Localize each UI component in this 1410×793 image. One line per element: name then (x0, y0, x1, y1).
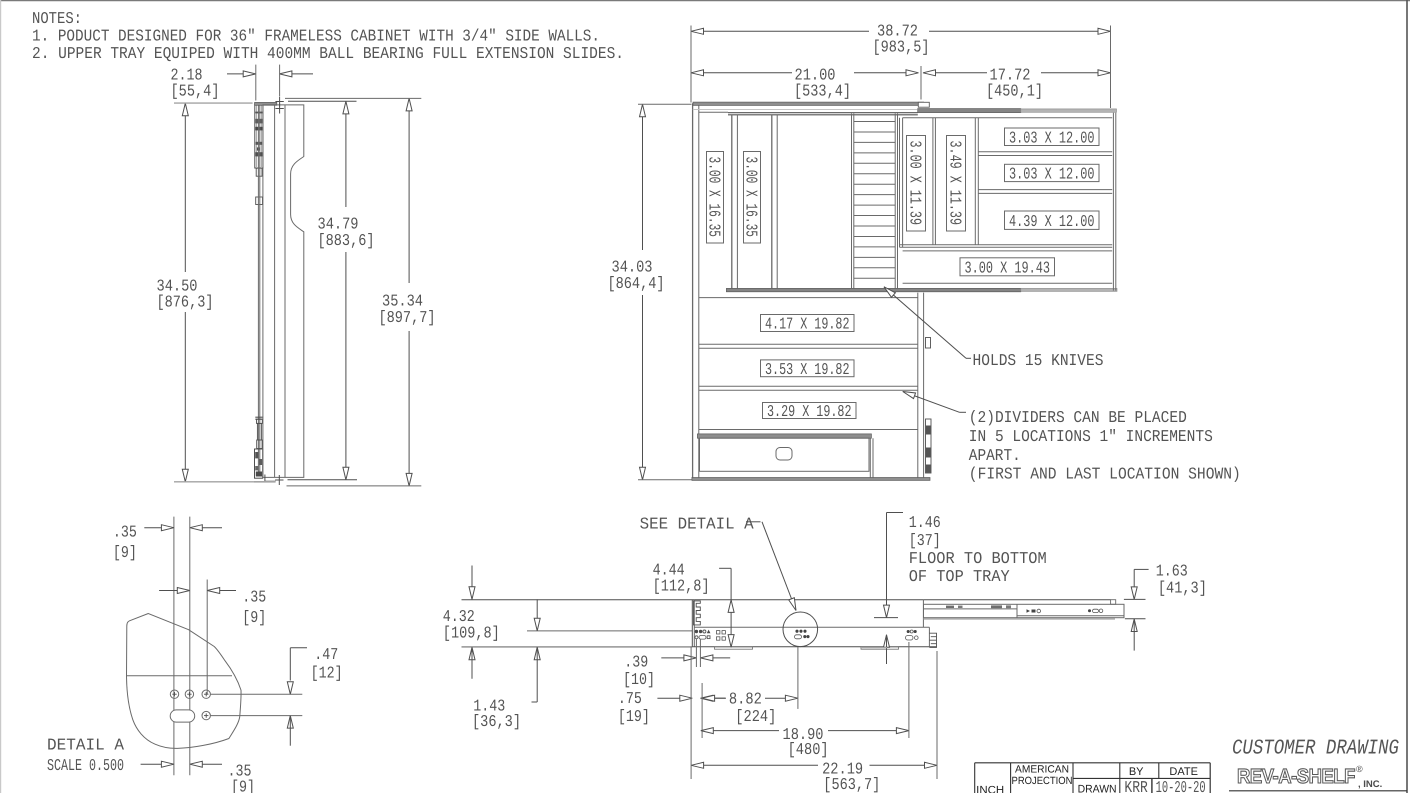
svg-text:OF TOP TRAY: OF TOP TRAY (909, 567, 1010, 586)
svg-text:[450,1]: [450,1] (986, 81, 1043, 100)
svg-text:®: ® (1356, 764, 1363, 774)
lower tray plan: divider pair 2 (771, 115, 773, 289)
section: feet under bar (715, 647, 753, 649)
svg-text:8.82: 8.82 (729, 690, 762, 709)
svg-text:DETAIL A: DETAIL A (47, 736, 124, 755)
label 3.00 X 11.39 (907, 136, 926, 232)
slide rails extended (924, 604, 1125, 617)
svg-text:, INC.: , INC. (1358, 779, 1382, 790)
svg-text:[55,4]: [55,4] (171, 82, 220, 101)
label 3.00 X 19.43 (960, 258, 1055, 276)
svg-text:REV-A-SHELF: REV-A-SHELF (1237, 765, 1355, 788)
drawer front right pair (869, 438, 871, 477)
lower tray plan: divider pair 1 (731, 115, 733, 289)
svg-text:[12]: [12] (311, 664, 343, 683)
svg-text:IN 5 LOCATIONS 1" INCREMENTS: IN 5 LOCATIONS 1" INCREMENTS (969, 427, 1213, 446)
detail A: screw holes (170, 690, 178, 698)
side view: cabinet door panel outline with handle notch (263, 105, 304, 478)
svg-text:[883,6]: [883,6] (318, 231, 375, 250)
svg-text:[480]: [480] (788, 740, 829, 759)
svg-text:[224]: [224] (735, 707, 776, 726)
lower tray plan: compartment top dark pair (728, 112, 918, 114)
leader HOLDS 15 KNIVES (884, 287, 966, 359)
label 3.00 X 16.35 compartment 1 (707, 152, 724, 244)
svg-text:[112,8]: [112,8] (653, 577, 710, 596)
svg-text:[9]: [9] (113, 543, 137, 562)
svg-text:.35: .35 (113, 523, 137, 542)
upper tray plan: interior top line (903, 117, 1113, 119)
svg-text:[109,8]: [109,8] (443, 624, 500, 643)
detail A circle rivets (795, 630, 798, 633)
section: right end cap (929, 633, 936, 647)
upper tray plan: bottom row line (903, 282, 1113, 284)
svg-text:[563,7]: [563,7] (823, 775, 880, 793)
logo underline (1229, 790, 1407, 792)
slide bottom gray (924, 618, 1116, 620)
knife block left edge (851, 114, 853, 289)
drawer front top band (697, 434, 871, 438)
extension line from detail circle (797, 647, 799, 709)
sheet left border (0, 0, 2, 793)
svg-text:1.46: 1.46 (909, 513, 941, 532)
sheet top border (0, 0, 1410, 2)
svg-text:3.29 X 19.82: 3.29 X 19.82 (767, 402, 852, 421)
upper tray plan: right shelf divider pair 1 (978, 151, 1112, 153)
plan bottom band (692, 478, 930, 481)
section: top bar right edge (922, 600, 924, 628)
svg-text:SCALE 0.500: SCALE 0.500 (47, 756, 124, 775)
upper tray plan: top rail band light part (1021, 109, 1117, 112)
extension lines top dims (690, 26, 692, 103)
label 3.00 X 16.35 compartment 2 (744, 152, 761, 244)
svg-text:(2)DIVIDERS CAN BE PLACED: (2)DIVIDERS CAN BE PLACED (969, 408, 1187, 427)
detail A: wall verticals (173, 517, 175, 776)
upper tray plan: top rail band dark part (918, 109, 1021, 113)
section: left rivet dots (695, 630, 698, 633)
side view: slide rail verticals (257, 104, 259, 477)
side view: bottom gray strip (254, 481, 276, 483)
label 3.53 X 19.82 (761, 360, 855, 377)
svg-text:.75: .75 (618, 689, 642, 708)
section: castellated clip (694, 601, 701, 625)
upper tray plan: divider pair 1 (932, 118, 934, 245)
svg-text:[10]: [10] (623, 670, 655, 689)
lower tray plan: faint shelf line (693, 109, 917, 111)
detail A: hole row lines (211, 693, 303, 695)
feature crosses at panel top (275, 101, 283, 103)
upper tray plan: extra bottom line (903, 250, 1113, 252)
upper tray plan: right edge pair (1112, 113, 1114, 291)
upper tray plan: corner notch at band start (918, 102, 929, 107)
svg-text:3.03 X 12.00: 3.03 X 12.00 (1009, 128, 1095, 147)
svg-text:PROJECTION: PROJECTION (1012, 775, 1073, 787)
label 3.03 X 12.00 row 1 (1005, 128, 1100, 146)
svg-text:CUSTOMER DRAWING: CUSTOMER DRAWING (1232, 737, 1399, 760)
lower tray right edge (917, 293, 919, 478)
section: middle-left extension line (527, 630, 692, 632)
svg-text:APART.: APART. (969, 446, 1021, 465)
svg-text:DRAWN: DRAWN (1078, 783, 1117, 793)
sheet right border (1406, 0, 1408, 793)
slide detail rects (946, 606, 954, 608)
feature cross at panel bottom (275, 479, 283, 481)
svg-text:.39: .39 (624, 653, 648, 672)
lower+upper tray mid band dark part (726, 288, 1020, 291)
label 3.49 X 11.39 (947, 136, 966, 232)
svg-text:.35: .35 (242, 588, 266, 607)
side view: top mounting bracket hardware (255, 104, 263, 168)
svg-text:3.53 X 19.82: 3.53 X 19.82 (765, 360, 850, 379)
svg-text:4.17 X 19.82: 4.17 X 19.82 (765, 315, 850, 334)
side view: top rail gray bar (255, 102, 277, 105)
drawer front inner (700, 438, 870, 471)
drawer handle (776, 448, 792, 461)
leader dividers note (903, 392, 960, 413)
knife block right edge (894, 114, 896, 289)
svg-text:3.00 X 16.35: 3.00 X 16.35 (741, 157, 760, 238)
title block table (975, 762, 1210, 764)
side view: bottom mounting bracket hardware (255, 416, 263, 418)
svg-text:1. PODUCT DESIGNED FOR 36" FRA: 1. PODUCT DESIGNED FOR 36" FRAMELESS CAB… (32, 27, 600, 46)
detail A: slot (170, 710, 195, 722)
svg-text:[876,3]: [876,3] (157, 293, 214, 312)
section: top line (462, 599, 1111, 601)
svg-text:[864,4]: [864,4] (608, 274, 665, 293)
svg-text:10-20-20: 10-20-20 (1156, 778, 1206, 793)
slide rivet symbols (1027, 609, 1031, 612)
detail A: third vertical (206, 580, 208, 695)
label 3.03 X 12.00 row 2 (1005, 164, 1100, 181)
detail A: chord line (127, 675, 232, 677)
svg-text:NOTES:: NOTES: (32, 9, 82, 28)
svg-text:AMERICAN: AMERICAN (1015, 764, 1069, 776)
svg-text:KRR: KRR (1124, 778, 1147, 793)
section: floor line gray (462, 646, 693, 648)
upper tray plan: right shelf divider pair 2 (978, 189, 1112, 191)
svg-text:[36,3]: [36,3] (472, 712, 521, 731)
svg-text:HOLDS 15 KNIVES: HOLDS 15 KNIVES (973, 351, 1104, 370)
lower tray plan: left wall (692, 103, 694, 480)
svg-text:SEE DETAIL A: SEE DETAIL A (640, 515, 754, 534)
svg-text:DATE: DATE (1169, 766, 1198, 778)
lower tray plan: interior top line (699, 111, 728, 113)
extension lines .39 (695, 639, 697, 667)
extension lines for 2.18 (255, 65, 257, 101)
svg-text:INCH: INCH (976, 784, 1004, 793)
svg-text:2. UPPER TRAY EQUIPED WITH 400: 2. UPPER TRAY EQUIPED WITH 400MM BALL BE… (32, 44, 624, 63)
right slide hardware on plan (926, 419, 932, 473)
section: square rivets (717, 631, 720, 634)
label 3.29 X 19.82 (763, 403, 857, 419)
svg-text:(FIRST AND LAST LOCATION SHOWN: (FIRST AND LAST LOCATION SHOWN) (969, 465, 1241, 484)
svg-text:3.03 X 12.00: 3.03 X 12.00 (1009, 165, 1095, 184)
svg-text:[983,5]: [983,5] (873, 38, 930, 57)
svg-text:FLOOR TO BOTTOM: FLOOR TO BOTTOM (909, 549, 1047, 568)
svg-text:[897,7]: [897,7] (379, 308, 436, 327)
side view: bottom-left step (265, 475, 276, 482)
svg-text:[9]: [9] (231, 778, 255, 793)
extension lines for 34.50 (174, 102, 253, 104)
detail A circle (783, 612, 818, 647)
lower rows: bottom line (699, 429, 918, 431)
svg-text:3.00 X 19.43: 3.00 X 19.43 (965, 258, 1051, 277)
lower rows: top line (699, 297, 918, 299)
svg-text:[37]: [37] (909, 531, 941, 550)
svg-text:[9]: [9] (242, 608, 266, 627)
section: lower bar outline (691, 600, 693, 647)
lower rows: divider pair 2 (699, 385, 918, 387)
svg-text:BY: BY (1129, 766, 1144, 778)
label 4.17 X 19.82 (761, 315, 855, 332)
svg-text:3.00 X 16.35: 3.00 X 16.35 (704, 157, 723, 238)
svg-text:[41,3]: [41,3] (1158, 579, 1207, 598)
extension lines for 34.03 (638, 103, 692, 105)
upper tray plan: compartments bottom pair (900, 244, 1113, 246)
slide end notch (1111, 600, 1116, 605)
right clip on plan (926, 338, 931, 349)
label 4.39 X 12.00 (1005, 211, 1100, 229)
svg-text:.47: .47 (314, 645, 338, 664)
detail A: blob outline (127, 614, 242, 749)
extension lines for 35.34 (285, 97, 421, 99)
svg-text:[533,4]: [533,4] (794, 81, 851, 100)
knife block slats (854, 121, 895, 123)
upper tray plan: bottom band light part (1021, 288, 1117, 291)
upper tray plan: left wall pair (899, 118, 901, 248)
section: right rivet group (907, 630, 910, 633)
svg-text:3.49 X 11.39: 3.49 X 11.39 (945, 141, 964, 226)
svg-text:[19]: [19] (618, 707, 650, 726)
lower rows: divider pair 1 (699, 343, 918, 345)
side view: inner panel verticals (274, 105, 276, 477)
upper tray plan: divider pair 2 (974, 118, 976, 245)
svg-text:3.00 X 11.39: 3.00 X 11.39 (905, 141, 924, 226)
svg-text:4.39 X 12.00: 4.39 X 12.00 (1009, 212, 1095, 231)
extension lines for 34.79 (288, 100, 357, 102)
lower tray plan: top rail band (693, 102, 924, 105)
